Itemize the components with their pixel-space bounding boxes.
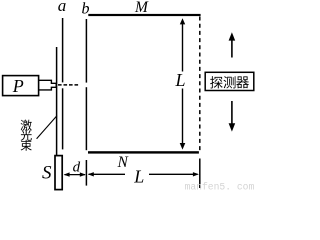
svg-text:M: M: [134, 0, 149, 16]
slit S rectangle: [55, 156, 62, 190]
b-line bottom tick: [85, 160, 87, 186]
svg-text:d: d: [73, 159, 81, 175]
plate N: [88, 151, 199, 153]
dashed vertical line at plate ends: [199, 17, 201, 151]
laser beam dashed axis: [58, 84, 78, 86]
detector up arrow: [229, 32, 236, 57]
laser nozzle: [39, 80, 57, 90]
slit plate a (vertical line with slit gap): [62, 18, 64, 82]
svg-text:N: N: [117, 154, 130, 171]
svg-text:L: L: [133, 167, 144, 187]
bottom L dimension arrow: [88, 172, 199, 176]
text 激光束 (laser beam): [21, 120, 32, 151]
text 探测器 (detector): [210, 76, 249, 88]
svg-text:manfen5. com: manfen5. com: [185, 181, 255, 191]
detector down arrow: [229, 101, 236, 132]
svg-text:L: L: [175, 70, 186, 90]
svg-text:S: S: [42, 162, 52, 183]
svg-text:a: a: [58, 0, 67, 15]
plate M: [88, 14, 200, 16]
svg-text:P: P: [12, 76, 24, 96]
detector box: [205, 72, 254, 90]
slit plate b (vertical line with slit gap): [85, 19, 87, 83]
laser box P: [3, 76, 39, 96]
d dimension double arrow: [64, 172, 86, 176]
right end tick: [199, 159, 201, 189]
screen holder line (left vertical line): [56, 47, 58, 156]
vertical L dimension arrow: [180, 18, 186, 149]
pointer line to laser beam: [37, 116, 57, 139]
